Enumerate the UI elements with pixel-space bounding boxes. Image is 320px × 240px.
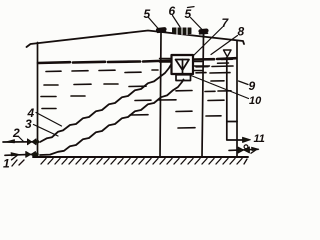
leader for label 6 [173,16,181,28]
valve on pipe 1 [26,151,36,157]
ground line [33,156,248,158]
overflow pipe (right, label 11) [227,58,248,141]
valve on pipe 2 [27,139,36,145]
flow arrow on pipe 2 (pointing left) [6,140,15,143]
leader for label 7 [194,27,223,56]
water surface line [38,58,236,63]
vent 5a cap on roof [158,27,165,32]
float triangle inside box [176,60,190,71]
tank roof [27,31,245,48]
leader for label 8 [211,36,238,55]
overflow arrowhead [243,137,251,142]
water level gauge triangle (right) [224,50,232,57]
inlet pipe 2 (upper) [3,141,38,143]
svg-text:1: 1 [3,157,10,171]
svg-text:9: 9 [249,79,256,93]
ground hatching [12,159,247,167]
drain valve wheel circle [244,145,248,149]
left wall [37,43,39,158]
svg-text:5: 5 [144,7,151,21]
vent pipe right (under vent 5b) [202,35,204,158]
leader for label 5a [149,18,160,30]
label 5b overbar [188,6,195,9]
leader for label 4 [36,113,62,127]
svg-text:7: 7 [222,16,230,30]
junction dot pipe 2 / wall [35,140,39,144]
vent 6 hatch box on roof [173,28,192,34]
vent pipe left (under vent 5a) [160,33,161,157]
connector lines left of box [160,59,172,63]
connector lines right of box [193,62,210,71]
float box lower body 8 [176,75,191,81]
leader for label 3 [34,125,59,137]
riser pipe 4 (upper inclined wavy) [40,64,172,142]
svg-text:5: 5 [185,7,192,21]
svg-text:6: 6 [169,4,176,18]
float valve box 7 [172,55,194,74]
inlet pipe 1 (lower) [5,154,38,155]
pipe-wall crossbar [227,121,237,123]
vent 5b cap on roof [201,29,207,34]
leader for label 2 [19,137,24,142]
drain arrowhead [252,147,259,150]
leader for label 5b [191,18,203,30]
drain line [229,149,258,150]
junction dot pipe 1 / wall [35,152,39,156]
drain valve bowtie [238,147,250,153]
level ticks under triangle [218,59,233,63]
riser pipe 3 (lower inclined wavy) [40,80,184,156]
flow arrow on pipe 1 (pointing right) [11,153,20,156]
svg-text:10: 10 [249,95,262,107]
svg-text:8: 8 [238,25,245,39]
water dashes [41,66,233,128]
svg-text:11: 11 [254,133,265,145]
leader for label 9 [239,81,249,85]
leader for label 10 [191,76,249,99]
svg-text:2: 2 [12,126,20,140]
svg-text:4: 4 [27,106,35,120]
right wall [236,41,238,158]
